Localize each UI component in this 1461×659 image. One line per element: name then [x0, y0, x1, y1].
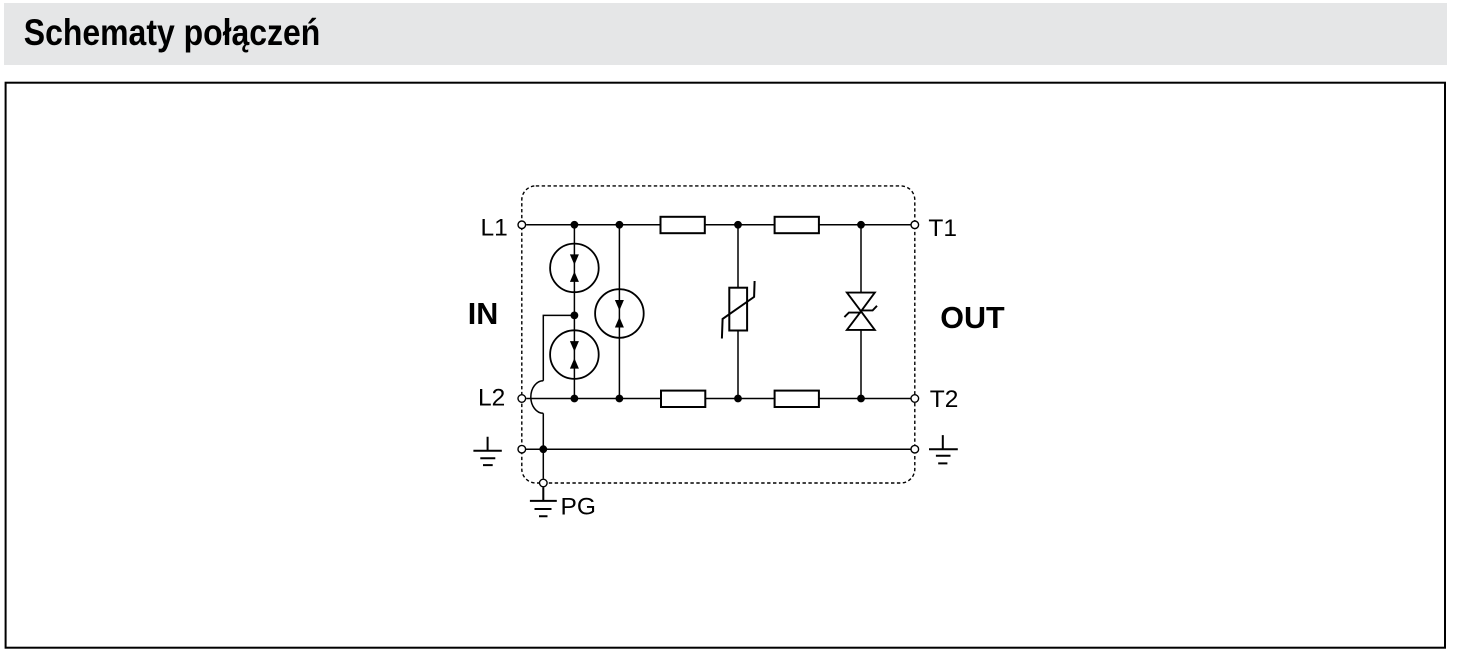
resistor R2	[775, 217, 819, 233]
junction dot node A	[571, 312, 579, 320]
svg-text:T2: T2	[930, 386, 959, 413]
terminal T1	[911, 221, 919, 229]
wire node A to PG branch	[543, 315, 574, 380]
junction dot bottom-B	[616, 395, 624, 403]
wire TVS branch vertical	[860, 225, 862, 399]
gas discharge tube F3 (circle)	[595, 289, 644, 338]
svg-text:L1: L1	[481, 215, 508, 242]
resistor R4	[775, 391, 819, 407]
junction dot bottom-TVS	[857, 395, 865, 403]
terminal T2	[911, 395, 919, 403]
header bar	[4, 3, 1447, 65]
varistor RV1 body	[729, 288, 747, 331]
varistor RV1 diagonal stroke	[722, 281, 755, 339]
junction dot top-TVS	[857, 221, 865, 229]
svg-text:L2: L2	[478, 384, 505, 411]
terminal L1	[518, 221, 526, 229]
wire branch B vertical (through gas tube)	[618, 225, 620, 399]
TVS diode D1 upper triangle	[847, 293, 875, 312]
resistor R3	[661, 391, 705, 407]
junction dot ground bus	[539, 445, 547, 453]
wire L2 to T2 (bottom line)	[526, 398, 910, 400]
terminal ground left	[518, 445, 526, 453]
terminal L2	[518, 395, 526, 403]
junction dot top-B	[616, 221, 624, 229]
TVS diode D1 lower triangle	[847, 311, 875, 330]
svg-text:T1: T1	[928, 215, 957, 242]
svg-text:OUT: OUT	[940, 301, 1005, 335]
svg-text:IN: IN	[468, 297, 499, 331]
device outline dashed enclosure	[522, 186, 915, 483]
gas discharge tube F3 arrows	[615, 300, 624, 311]
wire varistor branch vertical	[737, 225, 739, 399]
TVS diode D1 cathode bars	[844, 306, 877, 317]
gas discharge tube F1 (circle)	[550, 244, 599, 293]
svg-text:Schematy połączeń: Schematy połączeń	[24, 12, 321, 53]
wire L1 to T1 (top line)	[526, 224, 910, 226]
wire hop over L2 line	[531, 381, 543, 414]
junction dot bottom-varistor	[734, 395, 742, 403]
gas discharge tube F2 arrows	[570, 341, 579, 352]
ground symbol right	[929, 435, 958, 463]
gas discharge tube F2 (circle)	[550, 330, 599, 379]
terminal ground right	[911, 445, 919, 453]
wire branch A vertical (through gas tubes)	[573, 225, 575, 399]
ground symbol left	[473, 437, 501, 465]
junction dot top-A	[571, 221, 579, 229]
ground bus wire	[525, 448, 910, 450]
terminal PG	[540, 479, 548, 487]
resistor R1	[661, 217, 705, 233]
svg-text:PG: PG	[561, 493, 596, 520]
wire hop to PG terminal	[542, 413, 544, 478]
ground symbol PG	[530, 487, 557, 516]
junction dot bottom-A	[571, 395, 579, 403]
gas discharge tube F1 arrows	[570, 254, 579, 265]
junction dot top-varistor	[734, 221, 742, 229]
